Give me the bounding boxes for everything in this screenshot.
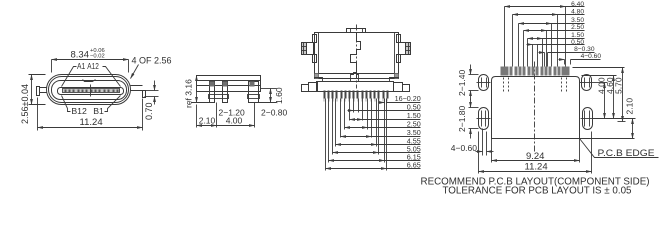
view1 front view: outer shell stadium <box>47 75 131 105</box>
view3 left peg <box>302 43 314 55</box>
dim ref 3.16 <box>192 102 211 104</box>
svg-text:6.65: 6.65 <box>407 161 421 170</box>
dim 4-0.60 bottom left <box>482 129 484 156</box>
view3 dim 5.05 <box>332 99 334 155</box>
view4 dim 0.50 <box>532 45 534 67</box>
svg-text:B1: B1 <box>93 106 104 116</box>
view1 tongue <box>58 88 124 95</box>
view3 dim 6.15 <box>328 99 330 163</box>
view4 dim 1.50 <box>527 39 529 67</box>
svg-text:TOLERANCE FOR PCB LAYOUT IS ±: TOLERANCE FOR PCB LAYOUT IS ± 0.05 <box>443 184 632 196</box>
svg-text:2−1.80: 2−1.80 <box>457 105 467 132</box>
dim 0.70 right <box>145 90 159 92</box>
view3 right peg <box>399 43 411 55</box>
view4 dim 6.40 <box>504 7 506 67</box>
svg-text:4.00: 4.00 <box>226 116 243 126</box>
svg-text:11.24: 11.24 <box>80 117 103 128</box>
svg-text:6.40: 6.40 <box>571 1 584 8</box>
view1 inner shell line <box>49 77 129 103</box>
view4 dim 8-0.30 <box>544 53 546 67</box>
view3 pins <box>353 91 355 99</box>
view4 dim 4-0.60 top <box>564 60 566 65</box>
view2 right peg <box>249 82 259 103</box>
view3 dim 1.50 <box>349 99 351 121</box>
dim 8.34 +0.06/-0.02 top <box>51 60 53 73</box>
svg-text:0.70: 0.70 <box>144 102 154 120</box>
view3 body <box>315 33 399 79</box>
svg-text:2.10: 2.10 <box>625 98 635 115</box>
view3 dim 4.55 <box>335 99 337 147</box>
svg-text:8.34: 8.34 <box>71 49 90 60</box>
svg-text:11.24: 11.24 <box>525 162 548 173</box>
dim 2-1.80 <box>469 107 479 109</box>
view1 contacts <box>65 90 67 93</box>
dim 4.60 <box>613 76 615 119</box>
view1 top latch notch <box>83 80 96 82</box>
svg-text:4−0.60: 4−0.60 <box>451 143 478 153</box>
view3 centerline <box>356 25 358 89</box>
view4 centerline <box>534 62 536 153</box>
view3 bottom flange <box>317 82 394 92</box>
dim 9.24 <box>491 139 493 163</box>
svg-text:A1: A1 <box>77 61 86 71</box>
dim 2-1.40 <box>469 74 479 76</box>
view1 cavity opening <box>52 81 127 100</box>
view4 footprint outline <box>492 77 580 139</box>
view4 oval hole pads <box>479 75 489 91</box>
svg-text:4−0.60: 4−0.60 <box>581 53 602 60</box>
svg-text:B12: B12 <box>71 106 87 116</box>
label P.C.B EDGE with leader <box>580 139 659 158</box>
svg-text:8−0.30: 8−0.30 <box>574 46 595 53</box>
dim 11.24 bottom <box>37 98 39 131</box>
dim 11.24 <box>478 132 480 174</box>
view3 dim 3.50 <box>340 99 342 138</box>
view1 right latch tab <box>143 91 146 98</box>
svg-text:2−0.80: 2−0.80 <box>261 107 288 117</box>
view3 top tab <box>347 29 366 33</box>
dim 2.10 <box>632 119 634 139</box>
svg-text:2−1.40: 2−1.40 <box>457 69 467 96</box>
view3 dim 2.50 <box>344 99 346 130</box>
svg-text:9.24: 9.24 <box>526 151 545 162</box>
svg-text:2.10: 2.10 <box>199 116 216 126</box>
dims 2.10 and 4.00 bottom <box>196 105 198 128</box>
svg-text:−0.02: −0.02 <box>90 54 105 60</box>
view1 contact strip <box>63 89 120 93</box>
view2 body plate <box>197 76 261 92</box>
dim 5.70 <box>622 68 624 122</box>
view3 dim 0.50 <box>353 99 355 113</box>
svg-text:4 OF 2.56: 4 OF 2.56 <box>132 56 172 66</box>
svg-text:2.56±0.04: 2.56±0.04 <box>20 84 30 124</box>
view4 PCB edge line extension <box>580 138 635 140</box>
dim 1.60 <box>261 88 277 90</box>
svg-text:2.50: 2.50 <box>571 24 584 31</box>
view4 hidden pin dotted lines <box>503 78 505 93</box>
dim 4.00 <box>604 83 606 119</box>
svg-text:0.50: 0.50 <box>571 39 584 46</box>
view4 right side extension lines <box>573 67 625 69</box>
view3 dim 6.65 <box>325 99 327 171</box>
svg-text:P.C.B EDGE: P.C.B EDGE <box>598 148 655 158</box>
view3 body inner frame <box>318 33 320 79</box>
view1 tongue centerline tick <box>90 85 92 97</box>
svg-text:3.50: 3.50 <box>571 17 584 24</box>
view2 left peg pair <box>210 82 215 103</box>
svg-text:5.70: 5.70 <box>614 77 624 94</box>
view1 left latch tab <box>37 87 40 96</box>
view3 flange center notch <box>351 73 359 82</box>
svg-text:ref 3.16: ref 3.16 <box>184 79 194 108</box>
svg-text:1.60: 1.60 <box>274 87 284 104</box>
view2 left peg bridge <box>209 95 229 99</box>
dim 2.56±0.04 left <box>29 74 46 76</box>
view4 dim 4.80 <box>512 15 514 67</box>
view3 body bottom step corners <box>315 78 323 82</box>
view3 shell seam <box>351 33 361 79</box>
svg-text:1.50: 1.50 <box>571 32 584 39</box>
view4 dim 3.50 <box>518 24 520 67</box>
view4 SMT pads <box>532 67 535 76</box>
view3 dim 16-0.20 <box>384 99 386 104</box>
svg-text:A12: A12 <box>87 61 99 71</box>
svg-text:4.80: 4.80 <box>571 9 584 16</box>
view4 dim 2.50 <box>523 31 525 67</box>
